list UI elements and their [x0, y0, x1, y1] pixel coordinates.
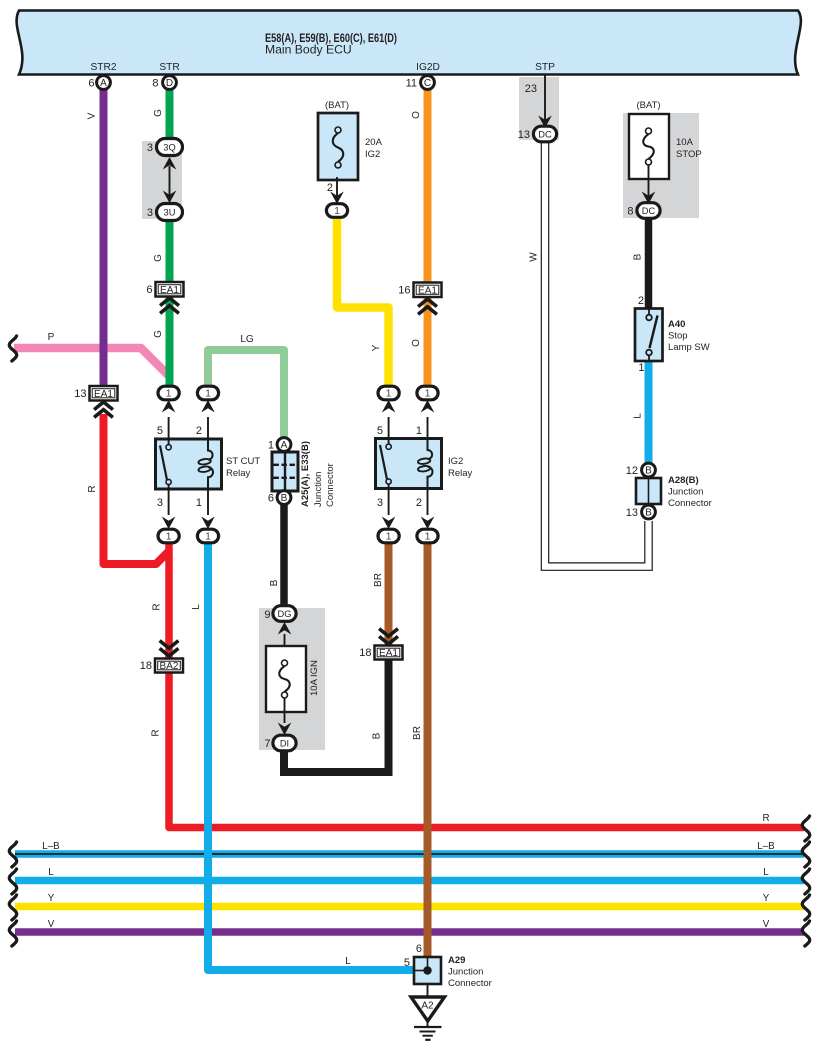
- svg-text:10A IGN: 10A IGN: [309, 660, 320, 696]
- svg-text:A28(B): A28(B): [668, 475, 699, 486]
- wire G green from 3U to 6 EA1 and on to ST CUT relay pin 5 node: [166, 219, 174, 388]
- svg-text:18: 18: [140, 660, 152, 672]
- node 1 above IG2 pin 1: [421, 400, 435, 413]
- wire Y yellow from 20A IG2 fuse to IG2 relay pin 5 node: [337, 217, 389, 388]
- svg-text:C: C: [424, 78, 431, 89]
- wire LG light green from ST CUT relay pin 2 node to junction connector A: [208, 350, 284, 438]
- svg-text:A25(A), E33(B): A25(A), E33(B): [300, 441, 311, 507]
- svg-text:1: 1: [334, 205, 340, 217]
- svg-text:2: 2: [638, 295, 644, 307]
- junction connector A28(B) body: [636, 478, 661, 504]
- svg-text:STR2: STR2: [90, 62, 116, 73]
- svg-text:A29: A29: [448, 955, 465, 966]
- node 1 below ST CUT pin 3: [162, 517, 176, 530]
- svg-text:2: 2: [416, 497, 422, 509]
- svg-text:Stop: Stop: [668, 331, 688, 342]
- svg-text:Connector: Connector: [448, 978, 492, 989]
- svg-text:V: V: [763, 919, 770, 930]
- wire B black from 7 DI to 18 EA1: [284, 660, 389, 772]
- shield box behind 3Q/3U connector: [142, 141, 182, 219]
- node 1 below 20A IG2 fuse: [326, 204, 347, 218]
- svg-text:1: 1: [638, 362, 644, 374]
- svg-text:Junction: Junction: [668, 487, 703, 498]
- node 1 above ST CUT pin 2: [201, 400, 215, 413]
- svg-text:BR: BR: [412, 726, 423, 740]
- svg-text:5: 5: [157, 425, 163, 437]
- svg-text:R: R: [152, 603, 163, 610]
- svg-text:IG2D: IG2D: [416, 62, 440, 73]
- svg-text:11: 11: [406, 78, 417, 90]
- junction connector A25(A), E33(B) body: [272, 452, 298, 491]
- svg-text:A: A: [100, 78, 107, 89]
- wire G green from ECU pin 8D to 3Q: [166, 86, 174, 140]
- connector 3 3Q: [157, 139, 183, 156]
- arrow up into 9 DG: [278, 622, 292, 635]
- svg-text:A40: A40: [668, 319, 685, 330]
- svg-text:2: 2: [327, 182, 333, 194]
- svg-text:16: 16: [398, 285, 410, 297]
- svg-text:20A: 20A: [365, 137, 383, 148]
- junction connector A28(B) pin 12 B: [642, 463, 656, 477]
- svg-text:(BAT): (BAT): [636, 100, 660, 111]
- svg-text:STR: STR: [159, 62, 179, 73]
- svg-text:IG2: IG2: [448, 456, 463, 467]
- svg-text:EA1: EA1: [160, 285, 179, 296]
- connector 8 DC: [637, 203, 660, 219]
- IG2 pin 5 lead: [388, 417, 390, 445]
- svg-text:B: B: [372, 732, 383, 739]
- svg-text:W: W: [529, 252, 540, 262]
- svg-text:B: B: [645, 508, 652, 519]
- svg-text:Main Body ECU: Main Body ECU: [265, 43, 352, 57]
- svg-text:D: D: [166, 78, 173, 89]
- svg-text:Relay: Relay: [226, 468, 251, 479]
- svg-text:L: L: [48, 867, 54, 878]
- ground lead from A29: [427, 984, 429, 997]
- svg-text:Lamp SW: Lamp SW: [668, 342, 710, 353]
- svg-text:L–B: L–B: [42, 841, 60, 852]
- svg-text:6: 6: [146, 284, 152, 296]
- svg-text:B: B: [645, 466, 652, 477]
- svg-text:Y: Y: [371, 344, 382, 351]
- node 1 below IG2 pin 2: [421, 517, 435, 530]
- svg-text:O: O: [411, 111, 422, 119]
- node 1 above ST CUT pin 5: [162, 400, 176, 413]
- junction connector A25(A), E33(B) pin 1 A: [277, 438, 291, 452]
- svg-text:V: V: [48, 919, 55, 930]
- node 1 below IG2 pin 3: [382, 517, 396, 530]
- node 1 above IG2 pin 5: [382, 400, 396, 413]
- ST CUT pin 5 lead: [168, 417, 170, 445]
- svg-text:1: 1: [425, 388, 431, 400]
- svg-text:P: P: [48, 332, 55, 343]
- svg-text:1: 1: [386, 388, 392, 400]
- arrow down into 7 DI: [278, 723, 292, 736]
- ECU pin 6 A (STR2): [97, 76, 111, 90]
- svg-text:EA1: EA1: [94, 389, 113, 400]
- svg-text:B: B: [281, 493, 288, 504]
- svg-text:1: 1: [425, 531, 431, 543]
- ECU pin 8 D (STR): [163, 76, 177, 90]
- svg-text:L: L: [191, 604, 202, 610]
- svg-text:EA1: EA1: [418, 285, 437, 296]
- svg-text:1: 1: [166, 388, 172, 400]
- svg-text:G: G: [153, 254, 164, 262]
- wire B black from 8 DC down to A40 stop lamp switch pin 2: [645, 218, 653, 310]
- svg-text:6: 6: [268, 493, 274, 505]
- junction connector A25(A), E33(B) pin 6 B: [277, 491, 291, 505]
- svg-text:G: G: [153, 109, 164, 117]
- relay ST CUT: [156, 439, 222, 489]
- svg-text:1: 1: [205, 388, 211, 400]
- ST CUT pin 3 lead: [168, 484, 170, 515]
- svg-text:3: 3: [157, 497, 163, 509]
- break squiggle on pink wire: [9, 336, 16, 361]
- shield box behind STP pin 23: [519, 77, 559, 140]
- wire W white from 13 DC down and around to A28 junction connector pin 13 B: [545, 141, 649, 567]
- svg-text:Junction: Junction: [448, 967, 483, 978]
- connector 7 DI: [273, 735, 296, 751]
- IG2 pin 3 lead: [388, 484, 390, 516]
- svg-text:1: 1: [416, 425, 422, 437]
- svg-text:1: 1: [205, 531, 211, 543]
- svg-text:Junction: Junction: [313, 472, 324, 507]
- svg-text:IG2: IG2: [365, 149, 380, 160]
- relay IG2: [376, 439, 442, 489]
- svg-text:1: 1: [196, 497, 202, 509]
- svg-text:8: 8: [152, 78, 158, 90]
- wire BR brown from IG2 relay pin 2 node down to A29 junction connector pin 6: [424, 543, 432, 958]
- fuse 10A IGN: [266, 646, 306, 712]
- junction connector A28(B) pin 13 B: [642, 505, 656, 519]
- svg-text:DC: DC: [642, 206, 656, 216]
- svg-text:1: 1: [268, 440, 274, 452]
- svg-text:G: G: [153, 330, 164, 338]
- wire R red from 13 EA1 elbow joining ST CUT relay pin 3 wire: [104, 414, 170, 564]
- ECU E58(A), E59(B), E60(C), E61(D) Main Body ECU: [17, 11, 801, 75]
- arrow into node 1 below 20A IG2 fuse: [330, 192, 344, 205]
- svg-text:DG: DG: [278, 609, 292, 619]
- svg-text:LG: LG: [240, 334, 254, 345]
- ST CUT pin 1 lead: [207, 489, 209, 515]
- svg-text:7: 7: [264, 738, 270, 750]
- svg-text:3: 3: [147, 142, 153, 154]
- svg-text:6: 6: [88, 78, 94, 90]
- shield box behind 10A STOP fuse: [623, 113, 699, 218]
- IG2 pin 2 lead: [427, 489, 429, 516]
- ground symbol: [427, 1021, 429, 1027]
- svg-text:STOP: STOP: [676, 149, 702, 160]
- shield box behind 10A IGN fuse: [259, 608, 325, 750]
- svg-text:L–B: L–B: [757, 841, 775, 852]
- svg-text:Connector: Connector: [668, 498, 712, 509]
- svg-text:6: 6: [416, 943, 422, 955]
- svg-text:9: 9: [264, 609, 270, 621]
- connector 3 3U: [157, 204, 183, 221]
- svg-text:B: B: [269, 579, 280, 586]
- svg-text:(BAT): (BAT): [325, 100, 349, 111]
- svg-text:STP: STP: [535, 62, 555, 73]
- ECU pin 23 lead (STP): [544, 75, 546, 121]
- svg-text:V: V: [87, 112, 98, 119]
- svg-text:R: R: [762, 813, 769, 824]
- svg-text:Y: Y: [763, 893, 770, 904]
- svg-text:13: 13: [74, 388, 86, 400]
- arrow into 8 DC: [642, 192, 656, 205]
- arrow into 13 DC: [538, 116, 552, 129]
- svg-text:2: 2: [196, 425, 202, 437]
- ST CUT pin 2 lead: [207, 417, 209, 439]
- svg-text:13: 13: [626, 507, 638, 519]
- svg-text:1: 1: [386, 531, 392, 543]
- svg-text:Relay: Relay: [448, 468, 473, 479]
- wire R red from ST CUT relay pin 3 node down through 18 BA2 to red bus: [169, 543, 804, 828]
- svg-text:3U: 3U: [164, 207, 176, 217]
- svg-text:Y: Y: [48, 893, 55, 904]
- connector 9 DG: [273, 606, 296, 622]
- svg-text:R: R: [151, 729, 162, 736]
- bus wire V purple: [15, 928, 804, 936]
- svg-text:3: 3: [147, 207, 153, 219]
- node 1 below ST CUT pin 1: [201, 517, 215, 530]
- wire L blue from ST CUT relay pin 1 node down to A29 junction connector pin 5: [208, 543, 414, 970]
- svg-text:DI: DI: [280, 738, 289, 748]
- svg-text:L: L: [763, 867, 769, 878]
- svg-text:12: 12: [626, 465, 638, 477]
- svg-text:L: L: [633, 413, 644, 419]
- wire V purple from ECU pin 6A down to 13 EA1: [100, 86, 108, 390]
- wire BR brown from IG2 relay pin 3 node down to 18 EA1: [385, 543, 393, 645]
- svg-text:18: 18: [359, 647, 371, 659]
- wire O orange from ECU pin 11C down through 16 EA1 to IG2 relay pin 1 node: [424, 86, 432, 388]
- bus wire Y yellow: [15, 903, 804, 911]
- connector 13 DC: [533, 126, 556, 142]
- svg-text:23: 23: [525, 83, 537, 95]
- svg-text:A: A: [281, 440, 288, 451]
- svg-text:3Q: 3Q: [163, 142, 175, 152]
- wire P pink from left break to ST CUT relay pin 5 node: [14, 348, 170, 377]
- svg-text:BR: BR: [373, 573, 384, 587]
- svg-text:Connector: Connector: [325, 463, 336, 507]
- wire B black from junction connector pin 6B down to 9 DG: [280, 504, 288, 608]
- svg-text:B: B: [633, 253, 644, 260]
- wire L blue from A40 stop lamp switch pin 1 down to 12 B: [645, 360, 653, 463]
- svg-text:R: R: [87, 485, 98, 492]
- svg-text:A2: A2: [421, 1001, 434, 1012]
- IG2 pin 1 lead: [427, 417, 429, 439]
- svg-text:EA1: EA1: [379, 648, 398, 659]
- ECU pin 11 C (IG2D): [421, 76, 435, 90]
- svg-text:3: 3: [377, 497, 383, 509]
- svg-text:DC: DC: [538, 129, 552, 139]
- svg-text:1: 1: [166, 531, 172, 543]
- svg-text:10A: 10A: [676, 137, 694, 148]
- link arrows between 3Q and 3U: [169, 166, 171, 195]
- bus wire L blue: [15, 877, 804, 885]
- svg-text:O: O: [411, 339, 422, 347]
- bus wire L-B blue with black stripe: [15, 850, 804, 857]
- svg-text:5: 5: [377, 425, 383, 437]
- svg-text:8: 8: [627, 206, 633, 218]
- ground triangle A2: [411, 997, 445, 1021]
- svg-text:BA2: BA2: [160, 661, 179, 672]
- svg-text:5: 5: [404, 957, 410, 969]
- svg-text:L: L: [345, 956, 351, 967]
- svg-text:ST CUT: ST CUT: [226, 456, 260, 467]
- svg-text:13: 13: [518, 129, 530, 141]
